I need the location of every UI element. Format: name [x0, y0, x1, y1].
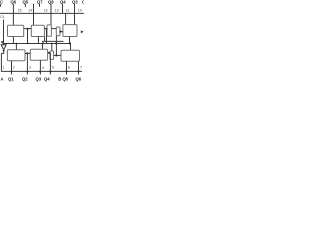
- bottom bus wire: [1, 70, 82, 72]
- svg-text:4: 4: [42, 66, 44, 70]
- pin stub tick Q5: [24, 4, 26, 7]
- svg-text:Q6: Q6: [11, 0, 17, 4]
- wire bus to box A: [12, 13, 14, 25]
- flip-flop box H: [61, 50, 80, 61]
- wire box G bottom down: [39, 60, 41, 74]
- flip-flop box F: [7, 50, 25, 61]
- input terminal dot: [1, 41, 3, 43]
- flip-flop box G: [30, 49, 47, 60]
- svg-text:B: B: [58, 77, 61, 82]
- wire bus to box E left: [65, 13, 67, 25]
- junction node B-C: [45, 28, 47, 30]
- oscillator output elbow wire: [1, 52, 4, 54]
- left chain wire down: [0, 53, 2, 71]
- wire bus to box B: [33, 13, 35, 25]
- svg-text:Q6: Q6: [76, 77, 82, 82]
- wire box B bottom to carry wire: [44, 37, 46, 42]
- junction mid bus x42.8: [42, 42, 44, 44]
- junction bottom bus x78.5: [78, 70, 80, 72]
- wire box B bottom down: [37, 37, 39, 44]
- junction node G2-H: [55, 54, 57, 56]
- wire mid bus to box G: [42, 44, 44, 50]
- svg-text:15: 15: [18, 9, 22, 13]
- svg-text:6: 6: [68, 66, 70, 70]
- oscillator inverter triangle: [1, 45, 6, 50]
- wire node G-G2 down to bottom bus: [49, 53, 51, 75]
- wire mid bus to box F: [15, 44, 17, 51]
- oscillator wire bottom: [3, 51, 5, 54]
- wire box F bottom down: [11, 61, 13, 75]
- wire node B-C down to mid bus: [46, 29, 48, 44]
- junction node A-B: [27, 28, 29, 30]
- mid bus wire: [2, 43, 70, 45]
- wire drop x33.5: [33, 4, 35, 14]
- junction bottom bus x66.5: [66, 70, 68, 72]
- wire mid bus elbow to box H: [70, 44, 72, 51]
- flip-flop box B: [31, 25, 44, 36]
- svg-text:10: 10: [78, 9, 82, 13]
- top bus wire: [0, 12, 84, 14]
- wire drop x74.5: [74, 4, 76, 14]
- svg-text:Q4: Q4: [44, 77, 50, 82]
- svg-text:7: 7: [80, 66, 82, 70]
- wire F to G: [25, 52, 30, 54]
- svg-text:A: A: [1, 77, 4, 82]
- svg-text:C: C: [82, 0, 84, 4]
- wire box A bottom down: [12, 37, 14, 44]
- clock input wire left edge: [3, 20, 5, 44]
- wire drop x50.5: [50, 4, 52, 14]
- wire bus to box E: [74, 13, 76, 25]
- junction node F-G: [26, 52, 28, 54]
- junction mid bus x51.8: [51, 43, 53, 45]
- wire G to G2: [48, 52, 50, 54]
- junction mid bus x27.6: [27, 43, 29, 45]
- junction bottom bus x50.4: [49, 70, 51, 72]
- wire box E bottom down: [69, 37, 71, 44]
- svg-text:13: 13: [55, 9, 59, 13]
- junction mid bus x56.3: [55, 42, 57, 44]
- svg-text:Q5: Q5: [23, 0, 29, 4]
- junction bottom bus x40: [39, 70, 41, 72]
- oscillator wire top: [3, 44, 5, 45]
- svg-text:12: 12: [44, 9, 48, 13]
- wire drop x62.5: [62, 4, 64, 14]
- svg-text:Q5: Q5: [63, 77, 69, 82]
- junction node D-E: [59, 31, 61, 33]
- svg-text:Q8: Q8: [48, 0, 54, 4]
- svg-text:Q1: Q1: [8, 77, 14, 82]
- divider box C: [47, 25, 51, 36]
- pin stub tick Q7: [39, 4, 41, 7]
- inverter bubble dot: [3, 50, 5, 52]
- junction bottom bus x11.5: [11, 70, 13, 72]
- wire node F-G down to bottom bus: [26, 53, 28, 74]
- continuation arrow right: [81, 30, 84, 33]
- pin stub tick left: [0, 4, 2, 7]
- wire box D bottom down: [55, 36, 57, 44]
- wire node A-B down to mid bus: [27, 29, 29, 44]
- svg-text:Q2: Q2: [22, 77, 28, 82]
- flip-flop box E: [63, 25, 77, 37]
- wire G2 to H: [54, 54, 61, 56]
- svg-text:3: 3: [29, 66, 31, 70]
- flip-flop box A: [8, 25, 24, 36]
- junction node G-G2: [48, 52, 50, 54]
- wire A to B: [24, 28, 32, 30]
- junction bottom bus x27.4: [26, 70, 28, 72]
- svg-text:Q3: Q3: [36, 77, 42, 82]
- svg-text:Q4: Q4: [60, 0, 66, 4]
- wire box H bottom down right: [78, 61, 80, 74]
- svg-text:CL: CL: [0, 15, 4, 19]
- svg-text:5: 5: [52, 66, 54, 70]
- svg-text:2: 2: [13, 66, 15, 70]
- svg-text:1: 1: [2, 66, 4, 70]
- carry wire y41: [42, 40, 64, 42]
- wire B to C: [44, 28, 47, 30]
- wire drop Q6 to bus: [12, 4, 14, 14]
- wire mid bus to box G2: [51, 44, 53, 52]
- wire box H bottom down left: [66, 61, 68, 74]
- svg-text:C: C: [0, 0, 3, 4]
- svg-text:Q7: Q7: [37, 0, 43, 4]
- junction mid bus x16.4: [16, 43, 18, 45]
- divider box G2: [50, 51, 54, 59]
- wire C to D: [51, 28, 56, 30]
- svg-text:Q3: Q3: [72, 0, 78, 4]
- junction mid bus x70: [69, 42, 71, 44]
- wire bus to box C: [50, 13, 52, 25]
- svg-text:11: 11: [66, 9, 70, 13]
- wire mid bus to G2 wire: [55, 44, 57, 56]
- svg-text:14: 14: [28, 9, 32, 13]
- divider box D: [56, 27, 60, 36]
- wire D to E: [60, 31, 63, 33]
